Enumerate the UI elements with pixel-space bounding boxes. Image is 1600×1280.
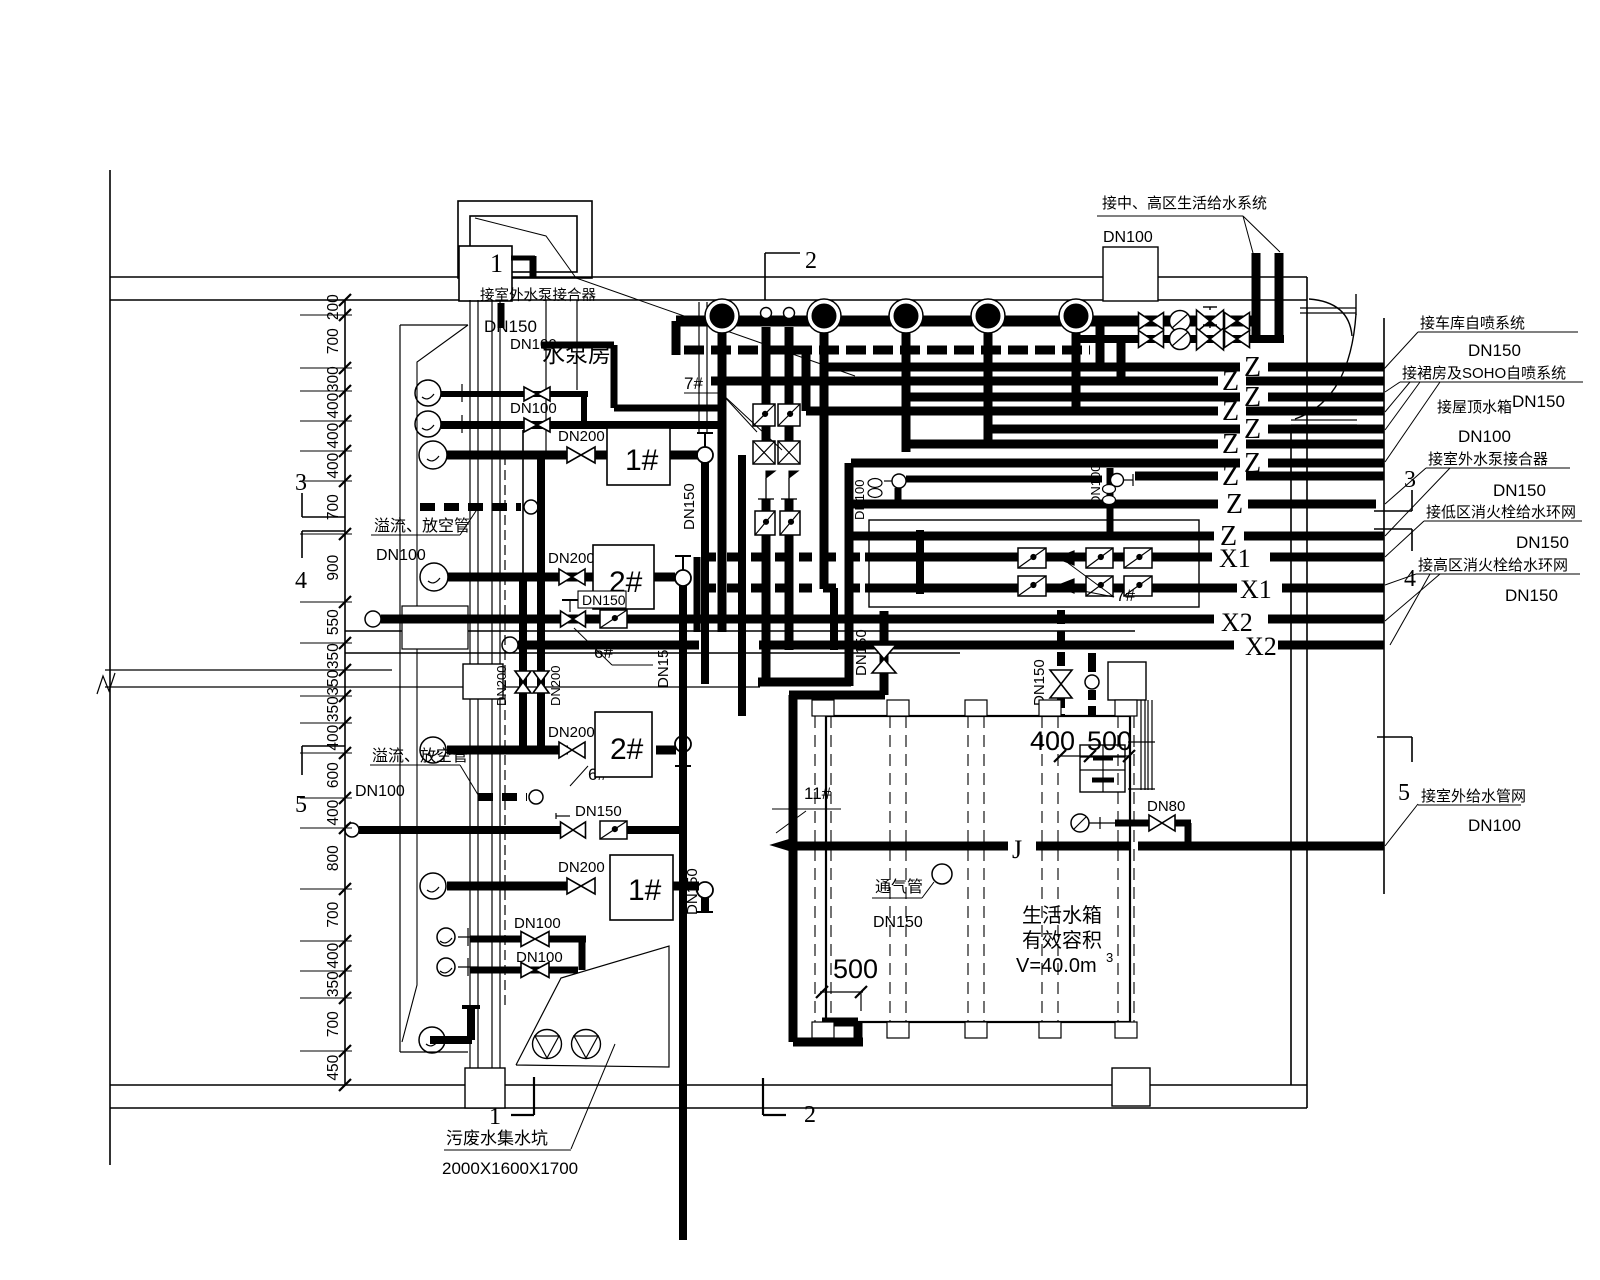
svg-text:6#: 6# [594,643,613,662]
svg-text:1: 1 [490,249,503,278]
svg-text:有效容积: 有效容积 [1022,929,1102,952]
svg-text:200: 200 [325,294,342,320]
svg-text:DN100: DN100 [852,480,867,520]
svg-text:接屋顶水箱: 接屋顶水箱 [1437,399,1512,416]
svg-text:DN100: DN100 [514,915,561,932]
svg-text:2000X1600X1700: 2000X1600X1700 [442,1159,578,1178]
svg-text:1#: 1# [625,444,659,477]
svg-text:1#: 1# [628,874,662,907]
svg-text:DN150: DN150 [1512,392,1565,411]
svg-text:DN150: DN150 [1505,586,1558,605]
svg-text:5: 5 [295,792,307,818]
svg-text:500: 500 [833,954,878,984]
svg-text:接室外水泵接合器: 接室外水泵接合器 [480,287,596,304]
svg-text:DN200: DN200 [548,550,595,567]
svg-text:700: 700 [325,1011,342,1037]
svg-text:DN150: DN150 [1493,481,1546,500]
svg-text:V=40.0m: V=40.0m [1016,955,1097,977]
svg-text:2: 2 [805,248,817,274]
svg-text:DN150: DN150 [1031,659,1048,706]
svg-text:X2: X2 [1245,632,1277,661]
svg-text:X1: X1 [1219,544,1251,573]
svg-text:900: 900 [325,554,342,580]
svg-text:DN150: DN150 [1468,341,1521,360]
svg-text:2#: 2# [610,733,644,766]
svg-text:接中、高区生活给水系统: 接中、高区生活给水系统 [1102,195,1267,212]
svg-text:350: 350 [325,696,342,722]
svg-text:DN150: DN150 [873,914,923,931]
svg-text:5: 5 [1398,780,1410,806]
svg-text:X1: X1 [1240,575,1272,604]
svg-text:DN100: DN100 [1468,816,1521,835]
svg-text:溢流、放空管: 溢流、放空管 [372,747,468,765]
svg-text:DN150: DN150 [853,629,870,676]
svg-text:7#: 7# [1116,586,1135,605]
svg-text:DN100: DN100 [1088,465,1103,505]
svg-text:700: 700 [325,494,342,520]
svg-text:550: 550 [325,609,342,635]
svg-text:350: 350 [325,971,342,997]
svg-text:DN100: DN100 [355,783,405,800]
svg-text:DN100: DN100 [376,547,426,564]
svg-text:污废水集水坑: 污废水集水坑 [446,1129,548,1148]
svg-text:3: 3 [295,470,307,496]
svg-text:DN200: DN200 [494,666,509,706]
svg-text:DN100: DN100 [1103,229,1153,246]
svg-text:450: 450 [325,1054,342,1080]
svg-text:DN150: DN150 [684,868,701,915]
svg-text:DN200: DN200 [548,724,595,741]
svg-text:DN150: DN150 [1516,533,1569,552]
svg-text:400: 400 [325,452,342,478]
svg-text:接室外水泵接合器: 接室外水泵接合器 [1428,451,1548,468]
svg-text:DN150: DN150 [681,483,698,530]
svg-text:通气管: 通气管 [875,878,923,896]
svg-text:400: 400 [325,422,342,448]
svg-text:DN150: DN150 [655,641,672,688]
svg-text:DN200: DN200 [558,428,605,445]
svg-text:接裙房及SOHO自喷系统: 接裙房及SOHO自喷系统 [1402,365,1566,382]
svg-text:400: 400 [325,942,342,968]
svg-text:DN200: DN200 [558,859,605,876]
svg-text:DN150: DN150 [582,592,626,608]
svg-text:接车库自喷系统: 接车库自喷系统 [1420,315,1525,332]
svg-text:1: 1 [489,1104,501,1130]
svg-text:2: 2 [804,1102,816,1128]
svg-text:7#: 7# [684,374,703,393]
svg-text:DN200: DN200 [548,666,563,706]
svg-text:700: 700 [325,901,342,927]
svg-text:350: 350 [325,669,342,695]
svg-text:DN80: DN80 [1147,798,1185,815]
svg-text:300: 300 [325,366,342,392]
svg-text:Z: Z [1222,429,1239,460]
svg-text:400: 400 [1030,726,1075,756]
svg-text:4: 4 [295,568,307,594]
svg-text:Z: Z [1226,489,1243,520]
svg-text:11#: 11# [804,784,832,803]
svg-text:Z: Z [1222,461,1239,492]
svg-text:400: 400 [325,799,342,825]
svg-text:DN100: DN100 [516,949,563,966]
svg-text:400: 400 [325,392,342,418]
svg-text:接室外给水管网: 接室外给水管网 [1421,788,1526,805]
svg-text:生活水箱: 生活水箱 [1022,904,1102,927]
svg-text:DN150: DN150 [575,803,622,820]
svg-text:800: 800 [325,845,342,871]
svg-text:DN100: DN100 [510,336,557,353]
svg-text:350: 350 [325,643,342,669]
svg-text:DN100: DN100 [510,400,557,417]
svg-text:接低区消火栓给水环网: 接低区消火栓给水环网 [1426,504,1576,521]
svg-text:3: 3 [1106,950,1113,965]
svg-text:Z: Z [1222,366,1239,397]
svg-text:4: 4 [1404,566,1416,592]
svg-text:3: 3 [1404,467,1416,493]
svg-text:DN100: DN100 [1458,427,1511,446]
svg-text:600: 600 [325,762,342,788]
svg-text:700: 700 [325,328,342,354]
svg-text:J: J [1012,835,1022,864]
svg-text:溢流、放空管: 溢流、放空管 [374,517,470,535]
svg-text:接高区消火栓给水环网: 接高区消火栓给水环网 [1418,557,1568,574]
svg-text:Z: Z [1222,396,1239,427]
